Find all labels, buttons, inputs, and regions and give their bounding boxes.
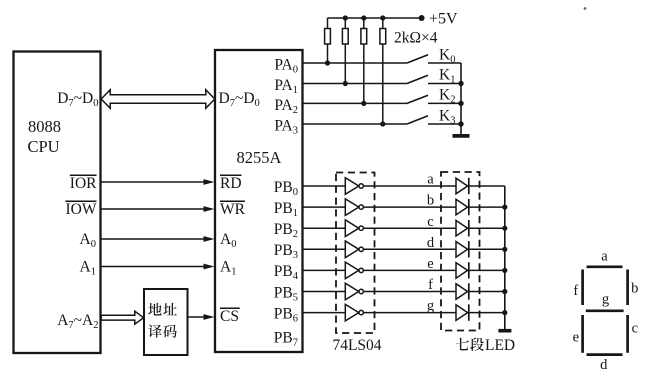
svg-text:d: d [427,235,435,251]
pin label A0 (8088) [80,231,96,250]
7-segment sketch: segment b [626,270,629,306]
IC 8088 CPU box [14,52,101,354]
wire inverter output / segment g [363,312,456,314]
LED diode segment b [456,199,469,215]
net label b [427,193,434,209]
svg-text:a: a [601,249,608,265]
7-segment sketch: label a [601,249,608,265]
net label d [427,235,435,251]
wire PB5 to inverter input [303,291,346,293]
LED diode segment c [456,220,469,236]
pin label D7~D0 (8088) [57,90,98,109]
wire inverter output / segment a [363,185,456,187]
wire inverter output / segment d [363,248,456,250]
node +5V terminal [419,11,458,28]
svg-text:CPU: CPU [28,137,60,156]
wire inverter output / segment b [363,206,456,208]
svg-text:2kΩ×4: 2kΩ×4 [394,30,438,47]
svg-text:f: f [428,277,433,293]
resistor R4 2k [380,18,386,124]
svg-text:+5V: +5V [429,11,458,28]
wire switch common bus [460,63,462,134]
svg-text:8255A: 8255A [237,148,282,167]
svg-text:74LS04: 74LS04 [332,337,381,354]
LED diode segment a [456,178,469,194]
pin label RD (8255A) [220,175,242,192]
paper speck [584,7,587,10]
pin label PB1 (8255A) [274,200,298,219]
pin label D7~D0 (8255A) [219,90,260,109]
pin label PB0 (8255A) [274,179,298,198]
inverter 74LS04 gate c [345,220,363,237]
junction +5V bus / R4 [380,15,385,20]
LED diode segment e [456,262,469,278]
inverter 74LS04 gate a [345,178,363,195]
wire LED c cathode to common bus [469,227,505,229]
junction LED bus / segment c [502,226,507,231]
label 2kΩ×4 [394,30,438,47]
svg-text:IOW: IOW [66,201,97,218]
svg-text:b: b [427,193,434,209]
wire inverter output / segment e [363,269,456,271]
7-segment sketch: label e [573,330,579,346]
IC 8255A box [215,50,303,352]
junction R4 / PA3 wire [380,121,385,126]
pin label PA0 (8255A) [274,57,298,76]
junction LED bus / segment e [502,268,507,273]
label 74LS04 [332,337,381,354]
junction LED bus / segment f [502,289,507,294]
wire LED b cathode to common bus [469,206,505,208]
svg-text:8088: 8088 [28,117,61,136]
svg-text:A7~A2: A7~A2 [57,312,98,331]
svg-text:c: c [632,321,638,337]
label 8255A [237,148,282,167]
svg-text:c: c [427,214,433,230]
svg-text:RD: RD [220,175,242,192]
net label c [427,214,433,230]
label 8088 CPU [28,117,62,156]
wire LED a cathode to common bus [469,185,505,187]
junction R3 / PA2 wire [361,101,366,106]
7-segment sketch: segment d [587,353,623,356]
inverter 74LS04 gate b [345,199,363,216]
LED diode segment d [456,241,469,257]
wire PB3 to inverter input [303,248,346,250]
7-segment sketch: label d [600,357,608,373]
svg-text:e: e [427,256,433,272]
svg-text:WR: WR [220,201,246,218]
svg-text:IOR: IOR [70,175,97,192]
pin label IOW (8088) [65,201,97,218]
wire PA3 to switch K3 [303,123,408,125]
wire PA0 to switch K0 [303,62,408,64]
pin label PA3 (8255A) [274,118,298,137]
pin label PA2 (8255A) [274,97,298,116]
resistor R3 2k [361,18,367,103]
ground (LED bus) [498,329,511,333]
junction switch bus / K1 [458,81,463,86]
wire IOW to WR with arrowhead [101,206,215,212]
ground (switch bus) [453,134,470,138]
address decoder box 地址译码 [144,289,188,355]
svg-text:D7~D0: D7~D0 [219,90,260,109]
pin label PB2 (8255A) [274,221,298,240]
switch K2 [407,87,461,106]
svg-text:f: f [573,283,578,299]
pin label PB3 (8255A) [274,242,298,261]
wire inverter output / segment c [363,227,456,229]
wire PB4 to inverter input [303,269,346,271]
7-segment sketch: segment e [581,315,584,353]
wire IOR to RD with arrowhead [101,179,215,185]
svg-text:g: g [427,298,434,314]
inverter 74LS04 gate f [345,283,363,300]
7-segment sketch: segment f [581,270,584,306]
wire PA1 to switch K1 [303,83,408,85]
switch K0 [407,47,461,66]
address bus A7~A2 hollow arrow to decoder [101,311,143,324]
svg-text:CS: CS [220,308,239,325]
inverter 74LS04 gate d [345,241,363,258]
LED diode segment g [456,304,469,320]
svg-text:a: a [427,172,434,188]
pin label PB4 (8255A) [274,263,299,282]
7-segment sketch: label b [631,281,638,297]
wire LED f cathode to common bus [469,291,505,293]
7-segment sketch: segment g [586,309,624,312]
wire PB2 to inverter input [303,227,346,229]
wire LED g cathode to common bus [469,312,505,314]
pin label CS (8255A) [220,308,240,325]
LED diode segment f [456,283,469,299]
pin label A7~A2 (8088) [57,312,98,331]
+5V bus wire [328,17,422,19]
wire PB6 to inverter input [303,312,346,314]
svg-text:D7~D0: D7~D0 [57,90,98,109]
wire PA2 to switch K2 [303,102,408,104]
pin label PA1 (8255A) [274,77,298,96]
7-segment sketch: label g [602,292,609,308]
junction +5V bus / R3 [361,15,366,20]
switch K3 [407,108,461,127]
resistor R2 2k [342,18,348,84]
7-segment sketch: segment a [587,265,623,268]
inverter 74LS04 gate e [345,262,363,279]
7-segment sketch: segment c [626,315,629,353]
junction R1 / PA0 wire [325,60,330,65]
label 七段LED [456,337,516,354]
junction LED bus / segment g [502,310,507,315]
wire PB0 to inverter input [303,185,346,187]
pin label WR (8255A) [220,201,246,218]
wire A1 to A1 with arrowhead [101,264,215,270]
label 地址 [148,303,177,316]
dashed outline 74LS04 package [336,173,375,334]
resistor R1 2k [325,18,331,63]
wire decoder to CS with arrowhead [188,314,215,320]
junction LED bus / segment b [502,205,507,210]
net label f [428,277,433,293]
7-segment sketch: label f [573,283,578,299]
switch K1 [407,67,461,86]
junction switch bus / K3 [458,121,463,126]
wire LED d cathode to common bus [469,248,505,250]
pin label PB6 (8255A) [274,305,298,324]
pin label PB5 (8255A) [274,284,298,303]
label 译码 [148,325,177,338]
wire inverter output / segment f [363,291,456,293]
pin label IOR (8088) [70,175,97,192]
wire A0 to A0 with arrowhead [101,236,215,242]
wire LED e cathode to common bus [469,269,505,271]
wire PB1 to inverter input [303,206,346,208]
svg-text:g: g [602,292,609,308]
pin label A1 (8255A) [220,259,236,278]
dashed outline 七段LED package [441,172,480,331]
junction switch bus / K2 [458,101,463,106]
data bus D7~D0 hollow double arrow [101,90,215,109]
junction R2 / PA1 wire [343,81,348,86]
net label e [427,256,433,272]
net label g [427,298,434,314]
svg-text:d: d [600,357,608,373]
pin label PB7 (8255A) [274,330,298,349]
junction LED bus / segment d [502,247,507,252]
wire LED common cathode bus [504,186,506,329]
pin label A0 (8255A) [220,231,236,250]
svg-text:LED: LED [485,337,515,354]
svg-text:e: e [573,330,579,346]
svg-text:b: b [631,281,638,297]
7-segment sketch: label c [632,321,638,337]
junction +5V bus / R2 [343,15,348,20]
inverter 74LS04 gate g [345,304,363,321]
net label a [427,172,434,188]
pin label A1 (8088) [80,259,96,278]
